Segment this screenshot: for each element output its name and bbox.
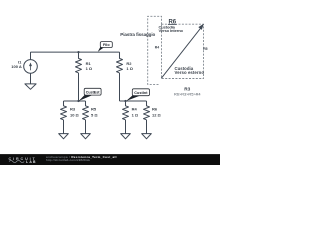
svg-text:R4: R4 (132, 107, 138, 112)
svg-text:CustEst: CustEst (86, 91, 101, 95)
node dot at R4 (124, 100, 126, 102)
svg-text:Verso esterno: Verso esterno (175, 70, 205, 75)
wire R6 to ground (146, 120, 148, 134)
wire I1 top lead (30, 52, 32, 60)
wire I1 bottom lead (30, 73, 32, 84)
resistor R5 (83, 101, 89, 120)
node dot CustEst (77, 100, 79, 102)
callout CustEst pointer (79, 94, 92, 101)
resistor R4 (123, 101, 129, 120)
label R6 title (168, 19, 177, 25)
callout CustInt pointer (126, 94, 140, 101)
label Custodia Verso Interno (159, 24, 184, 33)
wire R3 to ground (63, 120, 65, 134)
callout CustEst (84, 88, 101, 95)
svg-text:Verso Interno: Verso Interno (159, 28, 184, 33)
svg-text:R5: R5 (203, 47, 207, 51)
resistor R2 (117, 52, 123, 73)
wire top rail (31, 51, 120, 53)
arrow heat flow (161, 24, 204, 79)
resistor R1 (76, 52, 82, 73)
callout Filo pointer (98, 46, 104, 52)
svg-text:1 Ω: 1 Ω (132, 112, 139, 117)
svg-text:R5: R5 (91, 107, 97, 112)
svg-text:LAB: LAB (26, 160, 36, 164)
wire R4 to ground (125, 120, 127, 134)
svg-text:100 A: 100 A (11, 64, 22, 69)
ground under R6 (142, 134, 152, 139)
node dot top rail at R1 (77, 51, 79, 53)
ground under R5 (81, 134, 91, 139)
wire R5 to ground (85, 120, 87, 134)
ground under I1 (25, 84, 36, 89)
dashed box Custodia (162, 24, 204, 78)
svg-text:Piastra fissaggio: Piastra fissaggio (120, 32, 155, 37)
svg-text:10 Ω: 10 Ω (70, 112, 80, 117)
svg-text:5 Ω: 5 Ω (91, 112, 98, 117)
svg-text:12 Ω: 12 Ω (152, 112, 162, 117)
ground under R4 (121, 134, 131, 139)
label Custodia Verso esterno (175, 66, 205, 75)
wire R1 to CustEst node (78, 73, 80, 101)
wire right lower rail (120, 100, 147, 102)
footer bar (0, 154, 220, 165)
wire left lower rail (64, 100, 86, 102)
svg-text:R3: R3 (70, 107, 76, 112)
callout Filo (100, 42, 112, 48)
wire R2 to CustInt node (119, 73, 121, 101)
svg-text:R4: R4 (155, 45, 159, 49)
resistor R6 (144, 101, 150, 120)
resistor R3 (61, 101, 67, 120)
callout CustInt (132, 89, 149, 96)
svg-text:R6: R6 (152, 107, 158, 112)
svg-text:Filo: Filo (103, 43, 110, 47)
svg-text:R6>R3>R5>R4: R6>R3>R5>R4 (174, 92, 201, 97)
svg-text:1 Ω: 1 Ω (126, 66, 133, 71)
svg-text:http://circuitlab.com/c3829mk: http://circuitlab.com/c3829mk (46, 158, 91, 162)
logo wave (9, 160, 24, 162)
ground under R3 (59, 134, 69, 139)
svg-text:CustInt: CustInt (134, 91, 148, 95)
current source I1 (24, 60, 38, 74)
svg-text:1 Ω: 1 Ω (86, 66, 93, 71)
dashed box Piastra (148, 16, 162, 84)
